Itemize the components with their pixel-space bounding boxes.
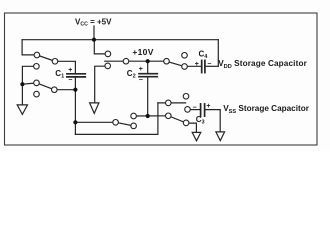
switch S1 arm <box>37 55 55 61</box>
S5 bottom throw <box>183 120 189 126</box>
swC pole <box>123 58 129 64</box>
capacitor C2 bottom plate <box>139 76 157 78</box>
ground G1 <box>17 105 27 115</box>
wire rail left elbow to S1 top throw <box>22 40 37 55</box>
wire S5 throw to ground G3 <box>186 123 196 132</box>
wire C2 bottom stem <box>147 77 149 116</box>
wire C3 right to ground G4 <box>205 110 221 132</box>
node ground left junction <box>20 82 24 86</box>
wire swD pole <box>75 121 115 123</box>
capacitor C3 left plate <box>200 104 202 116</box>
capacitor C1 top plate <box>67 73 85 75</box>
wire S1 bottom throw to ground node <box>22 66 36 105</box>
border frame <box>5 13 318 145</box>
S2 pole <box>52 87 58 93</box>
svg-text:−: − <box>207 61 211 68</box>
svg-text:+: + <box>139 66 143 73</box>
svg-text:−: − <box>193 104 197 111</box>
S2 top throw <box>34 80 40 86</box>
svg-text:−: − <box>139 77 143 84</box>
wire swC top throw to rail <box>94 40 108 54</box>
switch S3 arm <box>167 61 185 66</box>
ground G3 <box>192 132 201 140</box>
node C2 bottom junction <box>146 114 150 118</box>
S4 bottom throw / C3 node <box>185 107 191 113</box>
svg-text:+: + <box>206 103 210 110</box>
S3 top throw <box>182 53 188 59</box>
wire rail right drop to C4 <box>217 40 219 67</box>
swD top throw <box>131 113 137 119</box>
S1 top throw <box>34 52 40 58</box>
node swD wire junction <box>73 120 77 124</box>
wire S3 throw to C4 <box>185 65 202 67</box>
S1 bottom throw <box>34 64 40 70</box>
S1 pole <box>52 59 58 65</box>
capacitor C4 right plate <box>204 60 206 72</box>
node C1 bottom junction <box>73 88 77 92</box>
capacitor C3 right plate <box>204 104 206 116</box>
swD pole <box>113 120 119 126</box>
swD bottom throw <box>131 123 137 129</box>
S4 pole <box>166 100 172 106</box>
capacitor C1 bottom plate <box>67 76 85 78</box>
ground G2 <box>90 103 99 114</box>
wire Vcc stub <box>93 26 95 40</box>
S5 pole <box>166 113 172 119</box>
wire S4 pole and arm <box>158 102 186 104</box>
wire S2 top throw to ground node <box>22 83 36 84</box>
wire C2 top stem <box>147 61 149 73</box>
S4 top throw <box>183 94 189 100</box>
switch S5 arm <box>168 116 186 123</box>
wire +10V row with swC arm <box>105 60 167 62</box>
junction dots <box>20 38 149 125</box>
S2 bottom throw <box>34 91 40 97</box>
S3 bottom throw <box>182 64 188 70</box>
wire S1 pole to C1 top <box>55 61 75 73</box>
capacitor C4 left plate <box>201 60 203 72</box>
switch swD arm <box>116 122 134 126</box>
wire bottom return to S4 pole <box>75 103 157 134</box>
wire Vcc top rail <box>22 39 218 41</box>
svg-text:+: + <box>195 61 199 68</box>
wire swC bottom throw to ground G2 <box>95 66 108 103</box>
capacitor C2 top plate <box>139 73 157 75</box>
svg-text:+10V: +10V <box>132 47 153 57</box>
swC bottom throw <box>105 63 111 69</box>
wire node C2- row <box>134 115 169 117</box>
svg-text:+: + <box>68 67 72 74</box>
wire C1 bottom vertical down <box>74 77 76 134</box>
node +10V junction <box>146 59 150 63</box>
wire C4 to rail drop <box>205 65 218 67</box>
swC top throw <box>105 51 111 57</box>
switch contact circles <box>34 51 191 129</box>
wire S4 bottom throw to C3 <box>188 109 201 111</box>
svg-text:−: − <box>68 77 72 84</box>
wire S2 pole to C1 bottom <box>54 89 75 91</box>
ground G4 <box>216 132 225 141</box>
S3 pole <box>164 58 170 64</box>
node Vcc rail junction <box>92 38 96 42</box>
switch S2 arm <box>37 83 55 90</box>
